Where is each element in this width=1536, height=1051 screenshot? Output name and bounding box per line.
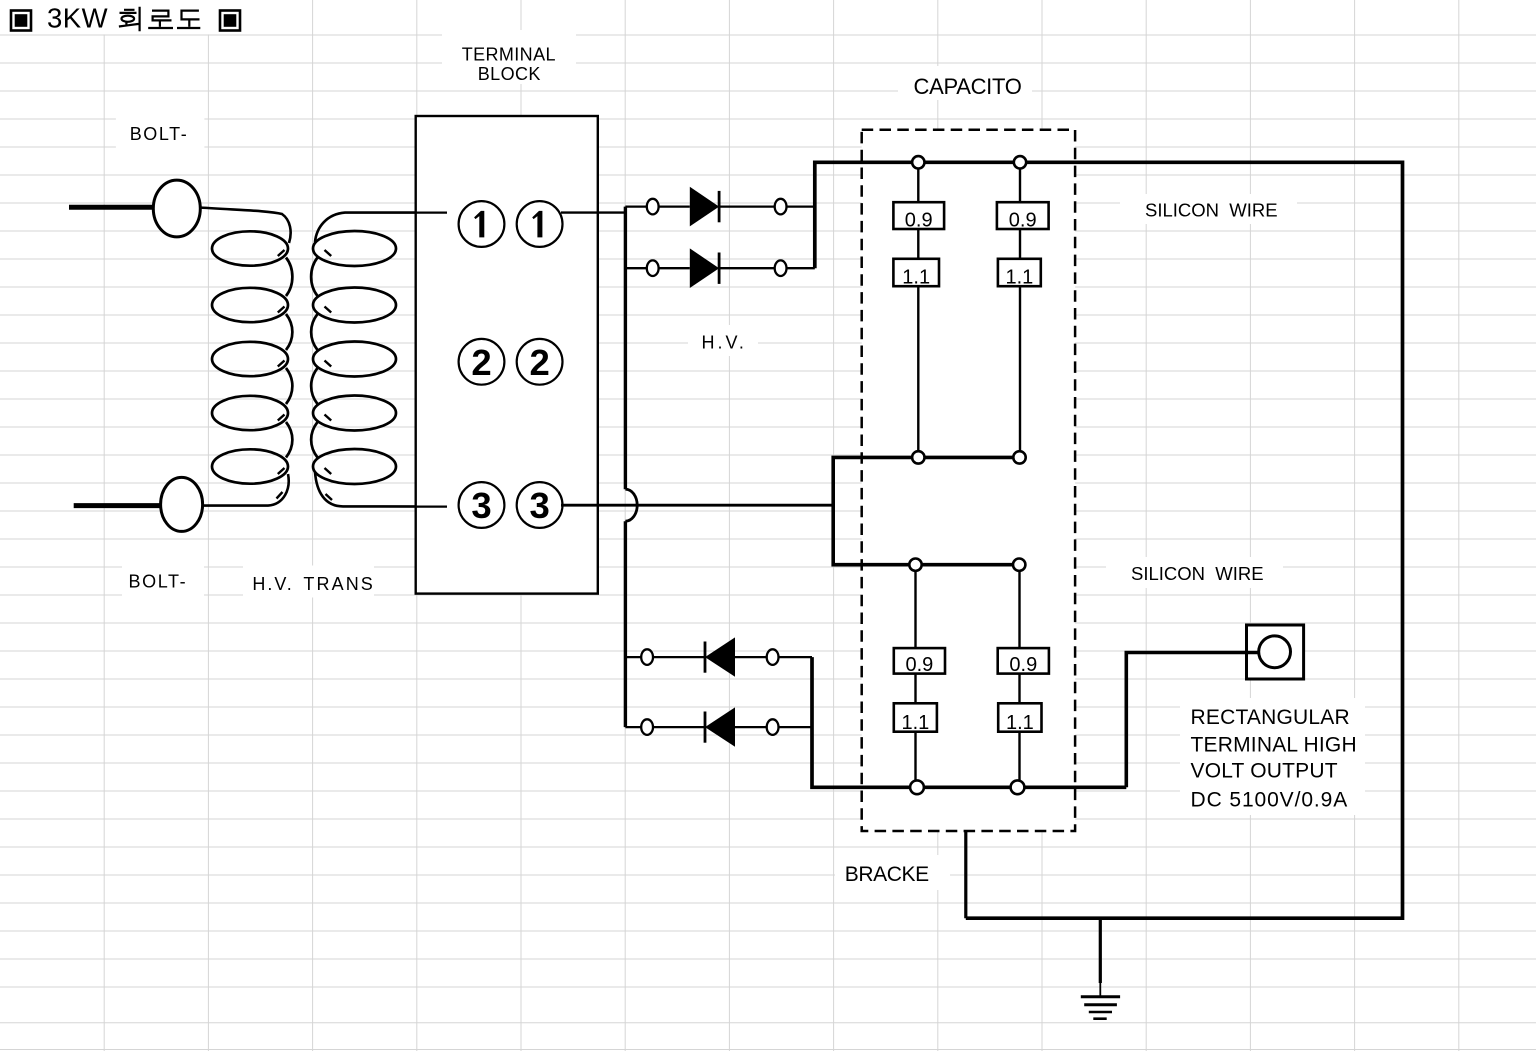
terminal pin 3 right xyxy=(517,482,563,528)
capacitor C4 column wire xyxy=(1018,565,1020,788)
capacitor C2 column wire xyxy=(1019,162,1021,457)
transformer T1 secondary top lead wire xyxy=(315,213,447,242)
svg-text:H.V.: H.V. xyxy=(702,333,747,353)
wire terminal3 to capacitor mid node xyxy=(561,504,833,507)
diode D2 xyxy=(690,248,719,288)
terminal block TB1 xyxy=(416,116,598,594)
capacitor C1 value 1.1 xyxy=(893,259,939,289)
capacitor C4 value 0.9 xyxy=(998,648,1049,676)
terminal pin 1 right xyxy=(517,201,563,247)
label background white-outs xyxy=(0,0,1365,890)
diode D1 cathode terminal xyxy=(775,199,787,215)
wire into terminal 1 xyxy=(415,212,447,214)
diode D1 anode terminal xyxy=(647,199,659,215)
wire into terminal 3 xyxy=(415,506,447,508)
svg-text:BRACKE: BRACKE xyxy=(845,863,929,886)
diode D3 cathode terminal xyxy=(641,649,653,665)
transformer T1 secondary junction barbs xyxy=(325,250,333,500)
svg-text:2: 2 xyxy=(529,342,549,383)
transformer T1 secondary coil xyxy=(311,231,396,484)
diode D1 row wires xyxy=(625,205,814,207)
node top bus left xyxy=(912,156,924,168)
diode D2 cathode terminal xyxy=(775,260,787,276)
terminal pin 2 left xyxy=(459,339,505,385)
title hangul HOE xyxy=(119,7,140,31)
svg-text:1.1: 1.1 xyxy=(1006,712,1034,734)
capacitor bank enclosure dashed xyxy=(862,130,1075,831)
capacitor C2 value 1.1 xyxy=(998,259,1041,289)
transformer T1 primary bottom lead wire xyxy=(203,474,289,506)
upper capacitor mid bus wire xyxy=(833,457,1019,564)
svg-text:3KW: 3KW xyxy=(47,3,108,34)
diode D2 row wires xyxy=(625,267,814,269)
svg-text:H.V.TRANS: H.V.TRANS xyxy=(252,574,375,594)
label RECTANGULAR TERMINAL HIGH VOLT OUTPUT DC 5100V/0.9A xyxy=(1191,706,1357,812)
diode D2 anode terminal xyxy=(647,260,659,276)
transformer T1 primary coil xyxy=(212,231,292,483)
diode D3 xyxy=(705,637,735,676)
lower capacitor bottom bus wire xyxy=(812,657,1126,787)
svg-text:BOLT-: BOLT- xyxy=(129,572,188,592)
bracket stem wire xyxy=(964,831,967,918)
svg-text:1.1: 1.1 xyxy=(901,712,929,734)
svg-text:RECTANGULAR: RECTANGULAR xyxy=(1191,706,1350,729)
ground stem wire xyxy=(1099,918,1102,983)
node lower top bus left xyxy=(909,559,921,571)
diode D4 xyxy=(705,707,735,746)
svg-text:TERMINAL HIGH: TERMINAL HIGH xyxy=(1191,733,1357,756)
node mid bus right xyxy=(1013,451,1025,463)
terminal pin 1 left xyxy=(459,201,505,247)
capacitor C2 value 0.9 xyxy=(997,202,1049,231)
svg-text:VOLT OUTPUT: VOLT OUTPUT xyxy=(1191,760,1338,783)
title marker square left xyxy=(11,11,31,31)
svg-text:DC 5100V/0.9A: DC 5100V/0.9A xyxy=(1191,789,1349,812)
svg-text:BLOCK: BLOCK xyxy=(478,64,541,84)
capacitor C3 column wire xyxy=(914,565,916,788)
bolt B1 top xyxy=(153,180,200,237)
capacitor C3 value 0.9 xyxy=(894,648,945,676)
node mid bus left xyxy=(912,451,924,463)
svg-text:3: 3 xyxy=(471,485,491,526)
svg-text:0.9: 0.9 xyxy=(1009,654,1037,676)
node bottom bus right xyxy=(1011,780,1025,794)
diode D3 anode terminal xyxy=(767,649,779,665)
top HV bus wire, right vertical and bottom ground bus xyxy=(815,162,1403,918)
diode D4 anode terminal xyxy=(767,719,779,735)
svg-text:1.1: 1.1 xyxy=(1005,266,1033,288)
svg-text:1.1: 1.1 xyxy=(902,266,930,288)
ground xyxy=(1081,997,1120,1019)
title marker square right xyxy=(220,11,240,31)
svg-text:0.9: 0.9 xyxy=(905,654,933,676)
capacitor C3 value 1.1 xyxy=(894,703,937,734)
diode D4 cathode terminal xyxy=(641,719,653,735)
capacitor C1 value 0.9 xyxy=(893,202,944,231)
label TERMINAL BLOCK xyxy=(462,44,556,84)
node bottom bus left xyxy=(910,780,924,794)
title hangul RO xyxy=(148,11,173,28)
wire hop over terminal3 wire xyxy=(625,489,637,521)
output terminal square xyxy=(1247,625,1304,679)
diode D4 row wires xyxy=(625,726,812,728)
bolt B2 bottom xyxy=(161,477,203,531)
diode D1 xyxy=(690,187,719,227)
svg-text:SILICON WIRE: SILICON WIRE xyxy=(1131,563,1264,584)
transformer T1 primary top lead wire xyxy=(200,208,291,244)
svg-text:BOLT-: BOLT- xyxy=(130,124,189,144)
terminal pin 2 right xyxy=(517,339,563,385)
bolt lead wire bottom xyxy=(74,503,161,508)
node lower top bus right xyxy=(1013,559,1025,571)
bolt lead wire top xyxy=(69,205,153,210)
capacitor C1 column wire xyxy=(917,162,919,457)
svg-text:2: 2 xyxy=(471,342,491,383)
node top bus right xyxy=(1014,156,1026,168)
output wire to terminal xyxy=(1126,653,1262,788)
svg-text:SILICON WIRE: SILICON WIRE xyxy=(1145,200,1278,221)
svg-text:0.9: 0.9 xyxy=(1009,209,1037,231)
transformer T1 secondary bottom lead wire xyxy=(315,472,447,507)
terminal pin 3 left xyxy=(459,482,505,528)
svg-text:3: 3 xyxy=(529,485,549,526)
title hangul DO xyxy=(177,11,200,28)
svg-text:0.9: 0.9 xyxy=(905,209,933,231)
svg-text:CAPACITO: CAPACITO xyxy=(914,74,1022,99)
output terminal circle xyxy=(1259,636,1291,668)
diode D3 row wires xyxy=(625,656,812,658)
capacitor C4 value 1.1 xyxy=(998,703,1041,734)
transformer T1 primary junction barbs xyxy=(277,250,285,499)
svg-text:TERMINAL: TERMINAL xyxy=(462,44,556,64)
wire terminal1 to diode bus xyxy=(561,211,625,213)
diode bus vertical wire xyxy=(624,207,627,728)
